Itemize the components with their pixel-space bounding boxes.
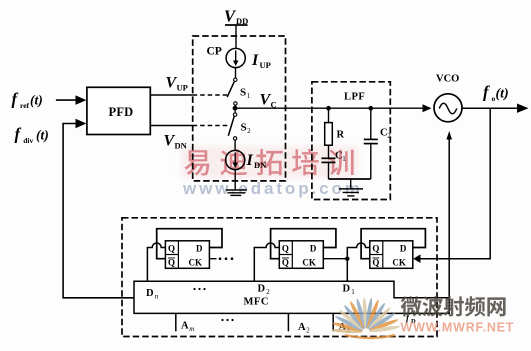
svg-text:DN: DN [175,141,188,151]
svg-text:1: 1 [247,92,251,100]
svg-text:Q: Q [372,258,379,268]
flip-flop FF1 [165,241,209,268]
svg-text:1: 1 [351,288,355,296]
svg-text:www.edatop.com: www.edatop.com [182,179,363,198]
svg-text:Q: Q [168,258,175,268]
switch S2 [228,108,251,140]
svg-text:n: n [155,293,159,301]
svg-text:S: S [240,87,246,99]
wire VDN control dashed [193,125,228,127]
svg-text:CK: CK [302,258,316,268]
svg-text:D: D [310,244,317,254]
wire FF3 D loop [361,229,425,259]
watermark edatop red text [181,146,363,198]
switch S1 [227,78,250,105]
svg-text:f: f [483,83,490,102]
svg-text:2: 2 [387,132,391,140]
power rail VDD [224,7,248,27]
oscillator VCO [434,74,462,122]
svg-text:f: f [15,125,22,144]
svg-text:D: D [400,244,407,254]
capacitor C2 [364,128,391,144]
wire FF3 Q to MFC D1 [347,243,370,281]
pin Am stub [176,313,194,333]
wire S2 to IDN [234,140,236,150]
block PFD [87,87,150,134]
wire C2 to rail [370,144,372,179]
wire divider output to VCO [446,131,452,298]
low-pass filter box LPF [312,82,390,200]
wire VDD to IUP [235,25,237,49]
wire FF2 Q to MFC D2 [254,243,279,281]
svg-text:D: D [258,284,266,295]
svg-text:MFC: MFC [244,297,269,308]
input fref(t) [12,90,87,111]
svg-text:Q: Q [168,244,175,254]
svg-text:div: div [23,136,33,145]
pin A2 stub [288,313,310,334]
svg-text:LPF: LPF [344,92,365,103]
wire VUP [150,75,192,96]
dots between Dn and D2 [193,288,205,290]
wire node to R [328,108,330,122]
svg-text:UP: UP [177,83,188,93]
svg-text:DN: DN [254,160,267,170]
svg-text:(t): (t) [36,128,49,143]
pin A1 stub [333,313,351,334]
svg-text:CK: CK [392,258,406,268]
dots between Am and A2 [221,319,233,321]
label fD [406,313,416,325]
wire R to C1 [328,145,330,158]
svg-text:I: I [246,152,254,169]
svg-text:A: A [298,322,306,333]
svg-text:CP: CP [207,46,222,58]
node R junction [326,106,331,111]
svg-text:ref: ref [20,101,30,110]
ground charge pump [226,190,247,195]
svg-text:I: I [251,52,259,69]
svg-text:Q: Q [282,244,289,254]
svg-text:m: m [189,325,194,333]
charge pump box CP [193,36,286,181]
divider dashed box [122,218,437,337]
svg-text:CK: CK [189,258,203,268]
resistor R [325,123,345,146]
svg-text:1: 1 [342,155,346,163]
pin Dn label [146,288,159,301]
wire VUP control dashed [193,94,228,96]
svg-text:2: 2 [306,327,310,335]
wire VDN [150,126,192,151]
output fo(t) [462,83,529,113]
pin D2 label [258,284,271,297]
capacitor C1 [322,151,347,164]
svg-text:2: 2 [247,127,251,135]
wire C1 to rail [328,162,330,179]
svg-text:(t): (t) [496,87,509,102]
svg-text:WWW.MWRF.NET: WWW.MWRF.NET [401,321,515,335]
ground LPF [339,179,363,196]
svg-text:f: f [12,90,19,109]
input fdiv(t) [15,125,49,146]
current source IUP [226,48,271,70]
current source IDN [226,150,268,170]
wire FF1 CK stub and dots [209,257,233,260]
watermark mwrf fan logo and text [331,296,514,338]
svg-text:2: 2 [266,288,270,296]
wire filter ground rail [329,178,371,180]
arrowhead LPF to VCO [423,104,432,112]
block MFC [134,281,449,313]
wire IDN to ground [234,170,236,190]
pin D1 label [343,284,356,297]
svg-text:D: D [343,284,351,295]
svg-text:A: A [181,321,189,332]
wire FF1 Q to MFC Dn [147,243,165,281]
svg-text:D: D [196,244,203,254]
svg-text:VCO: VCO [436,74,459,85]
wire feedback from output to FF3 CK [413,108,490,263]
svg-text:UP: UP [260,60,271,70]
wire feedback to PFD fdiv [63,119,134,298]
svg-text:D: D [146,288,154,299]
node C2 junction [369,106,374,111]
svg-text:Q: Q [282,258,289,268]
wire FF1 D loop [157,229,222,259]
wire IUP to S1 [235,68,237,79]
svg-text:Q: Q [372,244,379,254]
svg-text:PFD: PFD [109,105,134,119]
node VC [233,92,277,111]
svg-text:(t): (t) [30,93,43,108]
wire node to C2 [370,108,372,139]
svg-text:R: R [337,130,345,141]
flip-flop FF2 [279,241,323,268]
node FF3 Q junction [345,257,349,261]
flip-flop FF3 [370,241,413,268]
svg-text:S: S [241,122,247,134]
wire FF2 CK to FF3 junction [323,258,347,260]
wire FF2 D loop [271,229,336,259]
wire VC to LPF and through [235,107,424,109]
